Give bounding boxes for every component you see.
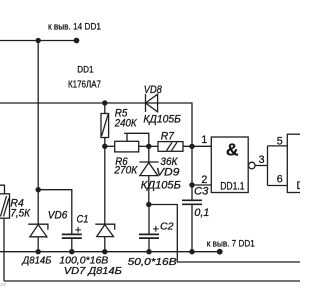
svg-text:100,0*16В: 100,0*16В [59,256,108,267]
wire output pin 3 [255,165,267,167]
svg-text:50,0*16В: 50,0*16В [128,257,177,268]
svg-text:0,1: 0,1 [194,207,209,219]
svg-text:к выв. 7 DD1: к выв. 7 DD1 [207,238,255,249]
wire gate2 input tie [268,146,288,186]
junction top rail / left column [36,38,41,43]
svg-text:VD9: VD9 [156,166,179,178]
svg-text:к выв. 14 DD1: к выв. 14 DD1 [48,22,101,33]
junction bus C3 [189,249,194,254]
junction C2 top node [146,202,151,207]
inversion bubble DD1.1 output [249,162,256,169]
svg-text:+: + [75,224,81,236]
junction C3 pin2 node [189,182,194,187]
diode VD8 [146,94,158,112]
svg-text:VD8: VD8 [144,84,162,96]
svg-text:С3: С3 [194,185,208,197]
junction bus C2 [146,249,151,254]
svg-text:R7: R7 [161,130,175,142]
svg-text:3: 3 [259,154,265,166]
svg-text:C1: C1 [77,214,89,226]
scan smudge bottom left [0,283,6,287]
svg-text:2: 2 [201,174,207,186]
junction pin1/VD8/C3 column [189,144,194,149]
resistor R6 trimmer [105,133,149,152]
junction R5 top [102,100,107,105]
svg-text:1: 1 [201,134,207,146]
wire left column vertical [37,41,39,190]
resistor R7 [149,142,212,152]
svg-text:К176ЛА7: К176ЛА7 [68,79,101,90]
svg-text:270К: 270К [113,165,137,177]
junction VD6/C1 node [36,187,41,192]
wire C1 top feed [38,190,72,234]
wire pin 2 [192,184,211,186]
resistor R5 [101,103,109,146]
svg-text:Д814Б: Д814Б [22,256,52,267]
resistor R4 [0,185,10,281]
svg-text:D: D [297,180,301,192]
wire +9V top rail [0,40,77,42]
capacitor C2 [139,205,159,252]
node к выв. 14 DD1 endpoint [74,38,80,44]
svg-text:240К: 240К [114,118,137,130]
node к выв. 7 DD1 endpoint [217,249,223,255]
svg-text:DD1: DD1 [77,65,93,76]
svg-text:5: 5 [277,135,283,147]
svg-text:КД105Б: КД105Б [141,179,181,191]
wire ground bus [0,251,220,253]
svg-text:VD6: VD6 [48,209,68,221]
junction bus C1 [69,249,74,254]
op element DD1.2 NAND gate partial [287,134,303,192]
capacitor C3 [182,146,202,251]
junction R5/R6/VD7 node [102,144,107,149]
junction R6/R7/VD9 node [146,144,151,149]
svg-text:КД105Б: КД105Б [143,113,181,125]
op element DD1.1 NAND gate [211,137,248,193]
wire mid horizontal rail with corner to pin 1 node [0,103,192,146]
wire lower rail [4,280,300,282]
svg-text:DD1.1: DD1.1 [220,180,244,192]
wire bypass to lower right rail [149,205,300,263]
svg-text:+: + [153,224,159,236]
svg-text:VD7 Д814Б: VD7 Д814Б [64,266,122,277]
junction bus VD6 [36,249,41,254]
svg-text:C2: C2 [160,222,174,233]
junction bus VD7 [102,249,107,254]
svg-text:6: 6 [277,173,283,185]
zener VD6 [28,190,48,252]
svg-text:7,5К: 7,5К [10,207,30,219]
svg-text:&: & [226,140,239,160]
diode VD9 [139,146,158,204]
capacitor C1 [62,234,82,251]
zener VD7 [95,146,114,251]
